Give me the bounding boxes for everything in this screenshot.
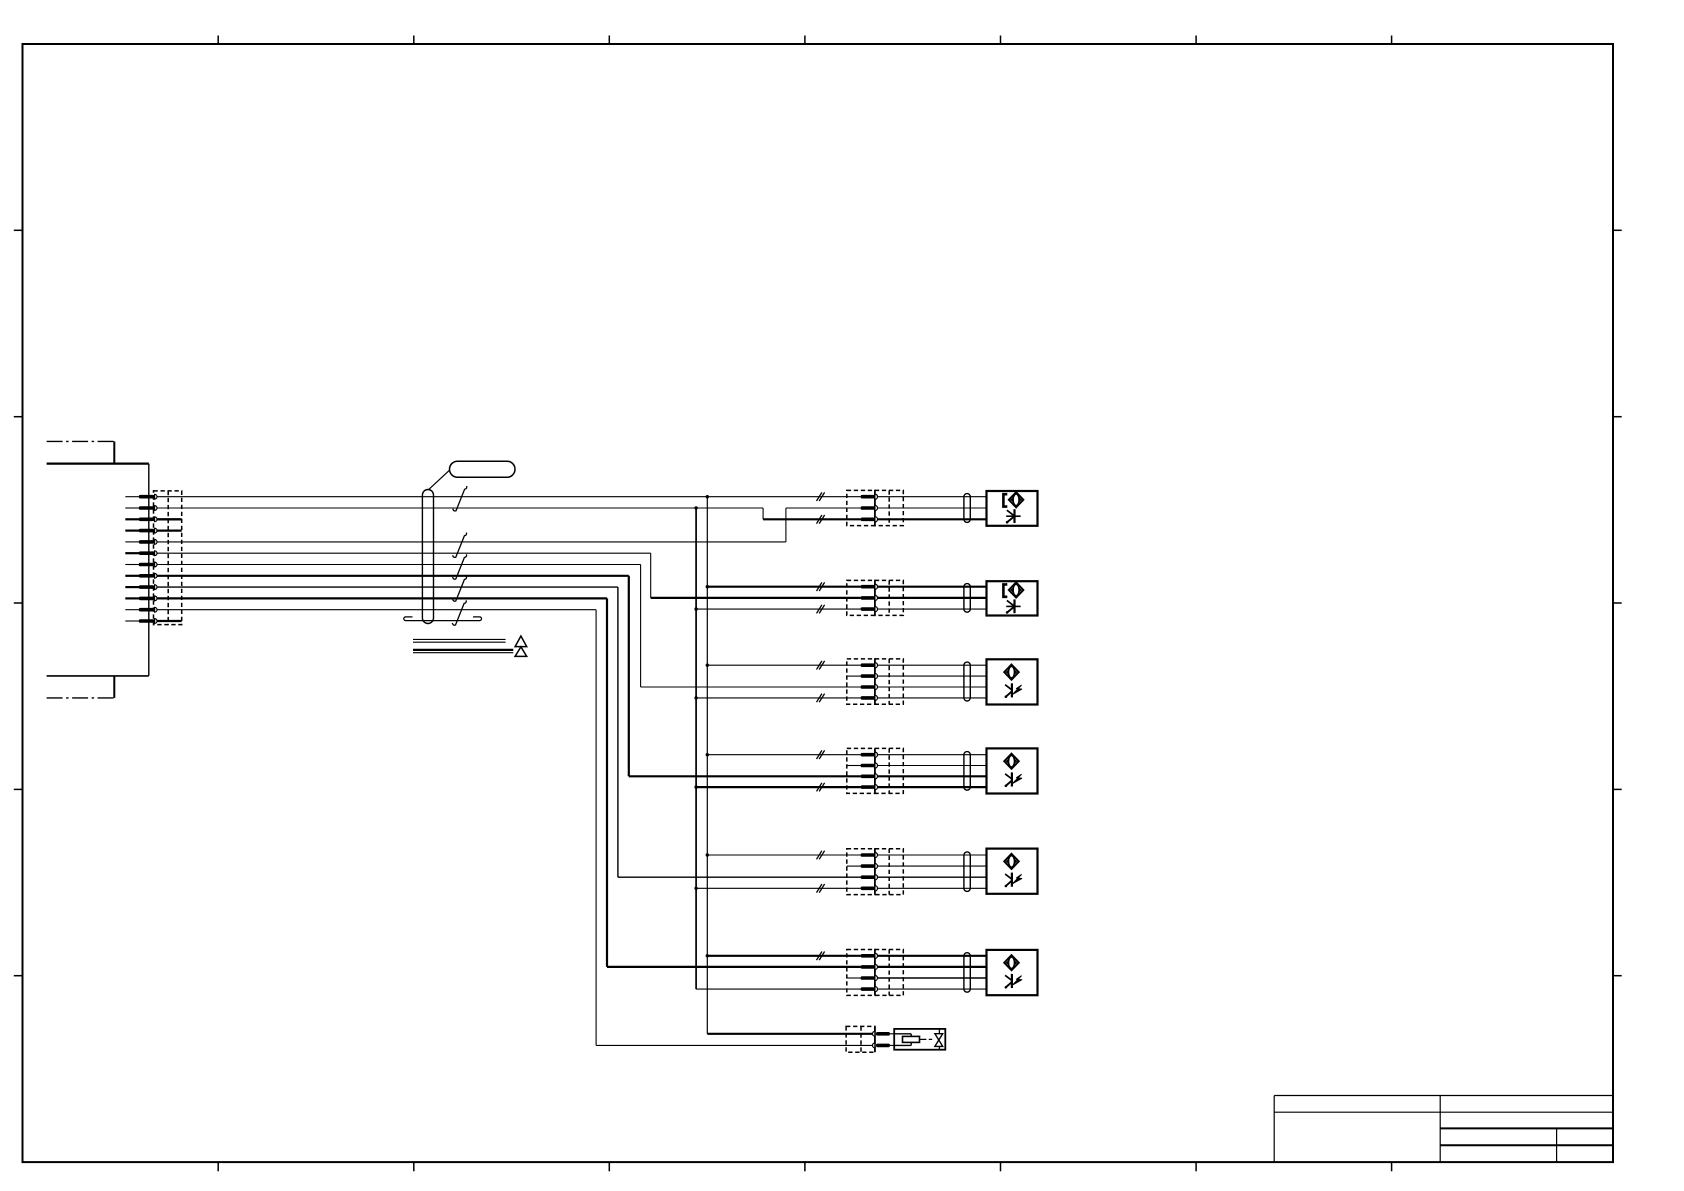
junction dots on buses xyxy=(694,495,709,958)
ECU pin 6 terminal xyxy=(125,551,157,556)
injector INJ2 nozzle icon xyxy=(1003,582,1023,597)
ECU pin 12 terminal xyxy=(125,619,157,624)
wire group slash 2 xyxy=(453,533,467,558)
injector INJ6 body xyxy=(987,950,1038,995)
injector INJ3 body xyxy=(987,659,1038,704)
connector INJ4 dashed housing xyxy=(847,748,904,793)
injector INJ2 body xyxy=(987,581,1038,615)
wire gauge mark on INJ1 wire xyxy=(817,492,822,501)
connector INJ1 pin 3 terminal xyxy=(861,517,878,522)
connector INJ6 dashed housing xyxy=(847,950,904,996)
injector INJ3 spray glyph xyxy=(1005,683,1022,698)
connector INJ6 pin 1 terminal xyxy=(861,953,878,958)
connector INJ3 pin 4 terminal xyxy=(861,695,878,700)
injector INJ4 nozzle icon xyxy=(1004,754,1019,769)
ECU pin 3 unterminated stub wire xyxy=(157,518,182,520)
wire gauge mark on INJ3 wire xyxy=(817,694,822,703)
connector INJ2 dashed housing xyxy=(847,580,904,615)
injector INJ4 spray glyph xyxy=(1005,772,1022,787)
harness sleeve at INJ5 xyxy=(964,852,970,892)
wire INJ3 connector pin 1 to injector xyxy=(877,664,986,666)
wire bus A tap to INJ6 pin1 xyxy=(707,955,861,957)
injector INJ2 spray glyph xyxy=(1006,599,1021,613)
connector INJ5 pin 3 terminal xyxy=(861,875,878,880)
wire INJ4 connector pin 2 to injector xyxy=(877,765,986,767)
title block xyxy=(1274,1096,1613,1163)
injector INJ1 body xyxy=(987,491,1038,526)
wire INJ3 connector pin 3 to injector xyxy=(877,686,986,688)
wire gauge mark on INJ5 wire xyxy=(817,851,822,860)
ECU pin 10 terminal xyxy=(125,596,157,601)
wire INJ1 connector pin 1 to injector xyxy=(877,496,986,498)
connector INJ5 pin 4 terminal xyxy=(861,886,878,891)
connector INJ2 pin 1 terminal xyxy=(861,584,878,589)
ECU pin 1 terminal xyxy=(125,494,157,499)
connector INJ5 pin 2 terminal xyxy=(847,864,878,869)
diode symbol (bowtie) xyxy=(935,1029,943,1050)
wire INJ5 connector pin 4 to injector xyxy=(877,887,986,889)
wire group slash 1 xyxy=(453,486,467,511)
connector INJ4 pin 1 terminal xyxy=(861,752,878,757)
ECU pin 4 unterminated stub wire xyxy=(157,529,182,531)
wire INJ2 connector pin 2 to injector xyxy=(877,597,986,599)
wire INJ2 connector pin 3 to injector xyxy=(877,608,986,610)
connector INJ1 pin 1 terminal xyxy=(861,494,878,499)
wire p11 down to diode module connector pin2 xyxy=(157,610,873,1046)
connector INJ1 dashed housing xyxy=(847,490,904,525)
ECU pin 4 terminal xyxy=(125,528,157,533)
wire gauge mark on INJ6 wire xyxy=(817,952,822,961)
ECU pin 2 terminal xyxy=(125,506,157,511)
wire bus A tap to INJ5 pin1 xyxy=(707,854,861,856)
wire INJ4 connector pin 3 to injector xyxy=(877,775,986,777)
ECU A1 boundary (partial, dash-dot) xyxy=(47,441,149,698)
wire bus B tap to INJ2 pin3 xyxy=(696,608,861,610)
harness sleeve at INJ6 xyxy=(964,953,970,993)
injector INJ5 body xyxy=(987,849,1038,894)
wire group slash 3 xyxy=(453,554,467,579)
wire INJ2 connector pin 1 to injector xyxy=(877,586,986,588)
injector INJ3 nozzle icon xyxy=(1004,665,1019,680)
diode module V1 body xyxy=(894,1029,945,1050)
connector X7 (diode module) dashed housing xyxy=(846,1026,875,1052)
ECU pin 9 terminal xyxy=(125,585,157,590)
connector INJ3 pin 1 terminal xyxy=(861,663,878,668)
injector INJ5 spray glyph xyxy=(1005,873,1022,888)
wire bus B tap to INJ3 pin4 xyxy=(696,697,861,699)
connector INJ1 pin 2 terminal xyxy=(861,505,878,510)
wire bus A tap to INJ3 pin1 xyxy=(707,664,861,666)
wire INJ3 connector pin 2 to injector xyxy=(877,675,986,677)
connector INJ3 dashed housing xyxy=(847,659,904,704)
wire gauge mark on INJ4 wire xyxy=(817,750,822,759)
wire p8 down to INJ4 connector pin3 xyxy=(157,576,861,777)
connector INJ4 pin 2 terminal xyxy=(847,763,878,768)
injector INJ4 body xyxy=(987,748,1038,793)
harness sleeve at INJ3 xyxy=(964,662,970,701)
wire bus A tap to INJ4 pin1 xyxy=(707,754,861,756)
connector X7 pin 2 terminal xyxy=(873,1043,895,1048)
ECU pin 3 terminal xyxy=(125,517,157,522)
wire group slash 5 xyxy=(452,600,466,625)
connector INJ4 pin 3 terminal xyxy=(861,774,878,779)
wire gauge mark on INJ1 wire xyxy=(817,515,822,524)
wire INJ1 connector pin 2 to injector xyxy=(877,507,986,509)
wire gauge mark on INJ2 wire xyxy=(817,582,822,591)
ECU pin 7 terminal xyxy=(125,562,157,567)
wire INJ6 connector pin 1 to injector xyxy=(877,955,986,957)
wire bus B (vertical) xyxy=(696,508,861,989)
connector INJ4 pin 4 terminal xyxy=(861,785,878,790)
harness sleeve at INJ1 xyxy=(964,494,970,523)
wire INJ3 connector pin 4 to injector xyxy=(877,697,986,699)
wire gauge mark on INJ3 wire xyxy=(817,661,822,670)
injector INJ6 spray glyph xyxy=(1005,974,1022,989)
diode module V1 internal plug xyxy=(894,1034,934,1046)
wire INJ6 connector pin 3 to injector xyxy=(877,977,986,979)
harness sleeve at INJ2 xyxy=(964,584,970,613)
wire INJ1 connector pin 3 to injector xyxy=(877,518,986,520)
harness sleeve at INJ4 xyxy=(964,752,970,791)
wire INJ4 connector pin 1 to injector xyxy=(877,754,986,756)
wire INJ5 connector pin 3 to injector xyxy=(877,876,986,878)
ECU pin 11 terminal xyxy=(125,607,157,612)
wire p10 down to INJ6 connector pin2 xyxy=(157,598,861,967)
wire INJ4 connector pin 4 to injector xyxy=(877,786,986,788)
wire gauge mark on INJ5 wire xyxy=(817,884,822,893)
connector X7 pin 1 terminal xyxy=(873,1031,895,1036)
ECU pin 8 terminal xyxy=(125,573,157,578)
wire p6 down to INJ2 connector pin2 xyxy=(157,553,861,598)
connector INJ6 pin 3 terminal xyxy=(847,975,878,980)
wire p2 to bus B then step to INJ1 connector pin3 xyxy=(157,508,861,519)
wire bus A (vertical) xyxy=(707,497,872,1034)
wire bus A tap to INJ2 pin1 xyxy=(707,586,861,588)
harness tie with hooked ends xyxy=(404,617,482,621)
connector INJ5 pin 1 terminal xyxy=(861,852,878,857)
injector INJ1 nozzle icon xyxy=(1003,492,1023,507)
wire gauge mark on INJ4 wire xyxy=(817,783,822,792)
wire p7 down to INJ3 connector pin3 xyxy=(157,565,861,688)
wire INJ5 connector pin 2 to injector xyxy=(877,865,986,867)
wire p5 up to INJ1 connector pin2 xyxy=(157,508,861,542)
ECU pin 5 terminal xyxy=(125,540,157,545)
connector INJ5 dashed housing xyxy=(847,849,904,895)
connector INJ3 pin 3 terminal xyxy=(861,684,878,689)
connector INJ6 pin 2 terminal xyxy=(861,964,878,969)
connector INJ6 pin 4 terminal xyxy=(861,987,878,992)
connector INJ2 pin 2 terminal xyxy=(861,595,878,600)
wire bus B tap to INJ4 pin4 xyxy=(696,786,861,788)
connector X1 ECU-side dashed housing xyxy=(154,491,182,625)
wire INJ5 connector pin 1 to injector xyxy=(877,854,986,856)
connector INJ3 pin 2 terminal xyxy=(847,674,878,679)
wire gauge mark on INJ2 wire xyxy=(817,605,822,614)
harness label balloon xyxy=(428,461,515,490)
twisted pair wires with arrow symbols xyxy=(413,636,527,656)
harness sheath (stadium) xyxy=(422,490,433,624)
wire p1 to bus A / INJ1 connector pin1 xyxy=(157,496,861,498)
wire INJ6 connector pin 2 to injector xyxy=(877,966,986,968)
wire group slash 4 xyxy=(453,576,467,601)
ECU pin 12 unterminated stub wire xyxy=(157,620,182,622)
injector INJ1 spray glyph xyxy=(1006,509,1021,523)
injector INJ6 nozzle icon xyxy=(1004,955,1019,970)
injector INJ5 nozzle icon xyxy=(1004,854,1019,869)
wire INJ6 connector pin 4 to injector xyxy=(877,988,986,990)
connector INJ2 pin 3 terminal xyxy=(861,607,878,612)
wire p9 down to INJ5 connector pin3 xyxy=(157,587,861,877)
wire bus B tap to INJ5 pin4 xyxy=(696,887,861,889)
